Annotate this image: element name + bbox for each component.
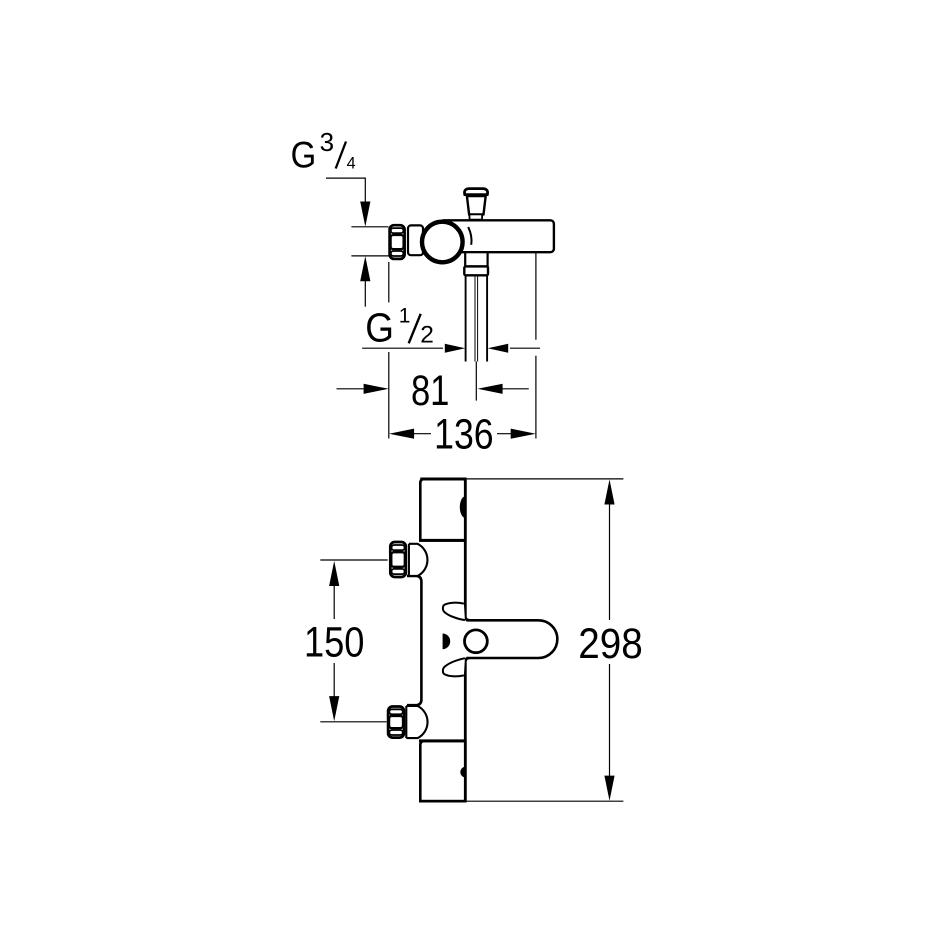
collar between nut and knob <box>408 225 423 255</box>
diverter knob neck <box>470 214 483 219</box>
dimension 136 line left segment <box>410 433 431 435</box>
G 1/2 left-pointing arrow <box>488 344 509 353</box>
150 dimension line upper <box>333 583 335 619</box>
dimension 136 right arrow <box>511 429 536 439</box>
svg-text:G: G <box>365 305 394 351</box>
150 down arrow <box>329 696 339 721</box>
diverter knob cap <box>465 189 488 195</box>
hose outer right line <box>486 275 488 361</box>
dimension 81 right-pointing arrow <box>364 384 389 394</box>
label G 1/2 <box>365 305 434 351</box>
diverter button circle (front) <box>465 630 488 653</box>
svg-text:1: 1 <box>399 305 411 328</box>
body right edge upper segment <box>465 479 469 620</box>
pipe top line <box>351 226 388 228</box>
bottom S-union dome <box>406 706 427 738</box>
arrow up to pipe bottom line <box>360 256 370 281</box>
svg-text:150: 150 <box>304 619 365 667</box>
thermostat knob (side view circle) <box>422 222 463 263</box>
dimension 81 left-pointing arrow <box>478 384 503 394</box>
150 top extension line <box>320 559 387 561</box>
bottom union nut (front) <box>388 707 404 738</box>
spout top petal <box>443 603 465 620</box>
298 dimension line upper <box>609 501 611 620</box>
298 bottom extension line <box>466 800 623 802</box>
150 bottom extension line <box>320 721 386 723</box>
arc detail inside body <box>468 227 471 245</box>
bottom dome nut edge line <box>405 706 407 738</box>
hose centre extension line <box>475 362 477 401</box>
hose inner line right <box>477 275 479 361</box>
black half-dot marker <box>443 634 451 650</box>
G 1/2 dimension line left part <box>362 347 443 349</box>
shower outlet block under body <box>465 252 487 266</box>
diverter knob stem <box>467 196 486 214</box>
svg-text:81: 81 <box>411 367 450 415</box>
dimension 81 right tail <box>500 388 529 390</box>
body right edge lower segment <box>465 658 469 801</box>
bottom wall plate <box>420 741 465 801</box>
spout (front, capsule) <box>467 620 558 658</box>
extension line left (x=388.8) upper segment <box>388 262 390 302</box>
mixer body (horizontal, side view) <box>440 220 554 252</box>
bottom plate thick top edge <box>419 739 467 742</box>
top plate thick bottom edge <box>419 539 467 542</box>
extension line left (x=388.8) lower segment <box>388 352 390 439</box>
G 1/2 dimension line right tail <box>510 347 540 349</box>
150 up arrow <box>329 561 339 586</box>
dimension 81 left tail <box>337 388 367 390</box>
top S-union dome <box>409 544 428 576</box>
298 top extension line <box>466 478 623 480</box>
svg-text:3: 3 <box>320 127 334 157</box>
svg-text:298: 298 <box>578 620 643 668</box>
top plate thick top edge <box>420 478 466 481</box>
hose inner line left <box>474 275 476 361</box>
bottom plate thick bottom edge <box>420 800 466 803</box>
extension line right x=535.9 lower segment <box>535 356 537 439</box>
150 dimension line lower <box>333 663 335 699</box>
leader line from G 3/4 label <box>326 178 365 204</box>
extension line right x=535.9 upper segment <box>535 253 537 340</box>
dimension 136 left arrow <box>389 429 414 439</box>
298 down arrow <box>604 776 614 801</box>
dimension 136 line right segment <box>497 433 514 435</box>
298 dimension line lower <box>609 664 611 778</box>
arrow down to pipe top line <box>360 202 370 227</box>
top screw hole crescent <box>460 496 466 518</box>
G 1/2 right-pointing arrow <box>445 344 466 353</box>
svg-text:G: G <box>291 135 317 176</box>
298 up arrow <box>604 479 614 504</box>
svg-text:136: 136 <box>434 411 494 459</box>
svg-text:4: 4 <box>347 155 356 173</box>
union nut G3/4 (side view) <box>390 225 405 259</box>
shower outlet ring <box>464 266 488 275</box>
top dome nut edge line <box>408 544 410 576</box>
top union nut (front) <box>390 542 406 577</box>
svg-text:2: 2 <box>420 321 434 348</box>
hose outer left line <box>465 275 467 361</box>
body mid strip <box>407 576 421 705</box>
pipe bottom line <box>351 255 388 257</box>
top wall plate <box>420 479 465 541</box>
label G 3/4 <box>291 127 356 175</box>
tail line below arrow <box>364 278 366 307</box>
bottom screw hole crescent <box>460 767 465 778</box>
spout bottom petal <box>443 658 465 676</box>
